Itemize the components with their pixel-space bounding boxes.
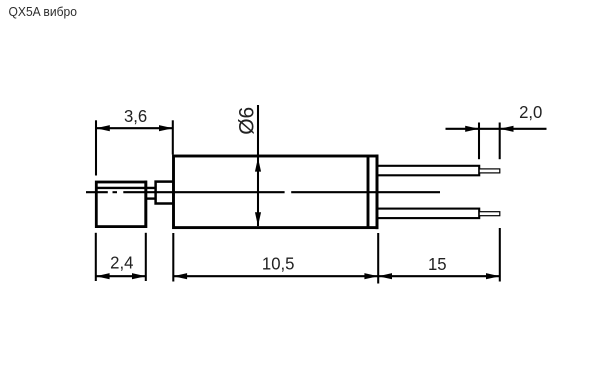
dim 15 arrows [378,273,392,279]
dim 10,5 line [173,275,378,277]
motor body [174,156,378,228]
shaft bottom [145,197,156,199]
bushing [156,182,174,204]
lower wire insulation [377,209,479,219]
dim 15 extension line right [499,228,501,282]
svg-text:QX5A вибро: QX5A вибро [9,5,77,19]
svg-text:3,6: 3,6 [124,105,147,126]
dim 2,4 extension lines [96,233,146,281]
centerline [86,191,440,193]
dim 10,5 extension lines [173,233,378,284]
dim 10,5 arrows [173,273,187,279]
dim 15 line [378,275,500,277]
svg-text:2,0: 2,0 [519,101,542,122]
end cap line [367,156,370,228]
dim 2,0 lines [446,128,547,130]
svg-text:Ø6: Ø6 [236,107,259,135]
dim 2,4 arrows [96,273,110,279]
dim Ø6 leader line [257,105,259,226]
dim 2,0 arrows [465,126,479,132]
svg-text:15: 15 [428,253,447,274]
eccentric weight [96,182,146,227]
dim 3,6 extension lines [96,120,173,175]
lower wire bare tip [479,212,500,216]
weight right edge redraw [144,181,147,228]
dim 2,0 extension lines [479,123,500,160]
weight lip line + shaft top [96,187,155,189]
upper wire bare tip [479,169,500,173]
svg-text:10,5: 10,5 [262,253,295,274]
upper wire insulation [377,166,479,176]
dim 3,6 line [96,127,173,129]
dim Ø6 arrows [255,158,261,172]
svg-text:2,4: 2,4 [110,252,134,273]
body right edge redraw [376,155,379,230]
dim 3,6 arrows [96,125,110,131]
dim 2,4 line [96,275,146,277]
